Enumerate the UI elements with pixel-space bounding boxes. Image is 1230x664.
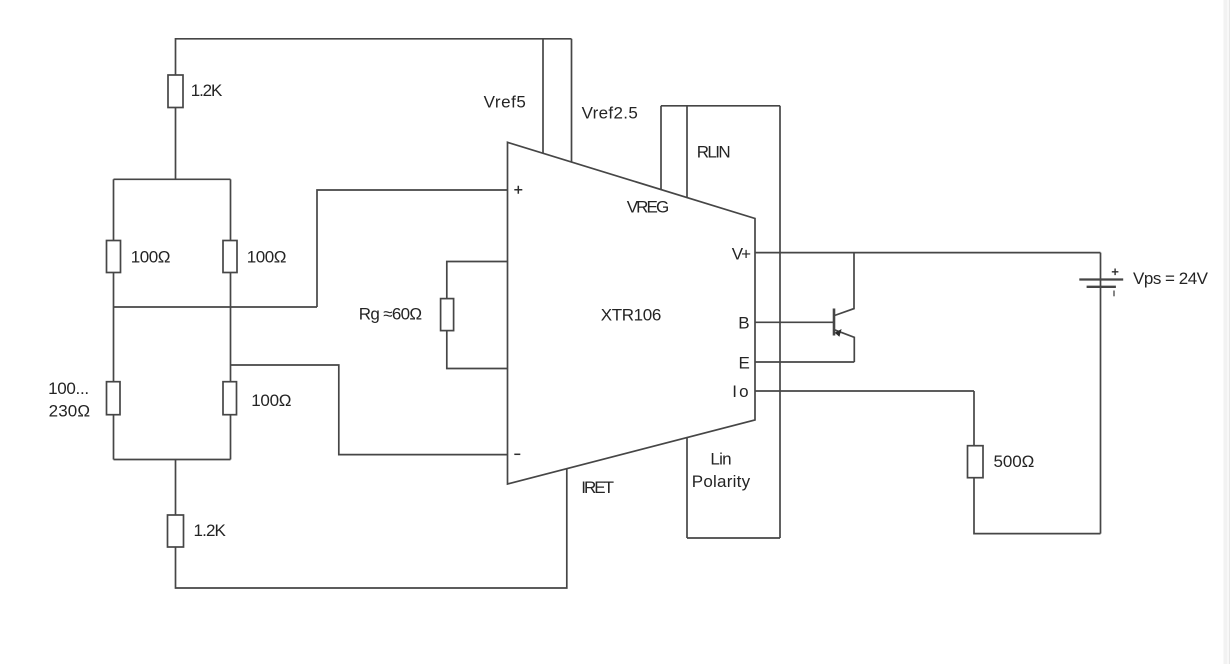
- svg-text:Vps = 24V: Vps = 24V: [1133, 269, 1209, 288]
- wire top rail: [176, 39, 572, 75]
- resistor 100-230 lower-left: [107, 382, 121, 415]
- wire Vref5 drop: [542, 39, 544, 154]
- wire bridge top: [114, 178, 231, 180]
- wire B pin: [755, 321, 834, 323]
- svg-text:XTR106: XTR106: [601, 306, 662, 325]
- wire bridge left middle: [113, 273, 115, 382]
- resistor 500 load: [968, 446, 984, 478]
- label battery plus mark: [1112, 269, 1119, 276]
- svg-text:100...: 100...: [48, 379, 89, 398]
- wire 1.2K to bridge top: [175, 108, 177, 180]
- wire Io to load: [973, 391, 975, 446]
- battery minus tick: [1113, 291, 1115, 297]
- wire Rg top: [447, 262, 508, 299]
- label minus input mark: [514, 453, 520, 455]
- battery Vps short plate: [1087, 286, 1116, 288]
- svg-text:230Ω: 230Ω: [49, 401, 91, 420]
- svg-text:IRET: IRET: [581, 478, 614, 497]
- svg-text:Io: Io: [732, 382, 748, 401]
- wire to plus input: [317, 190, 508, 307]
- label plus input mark: [514, 186, 522, 194]
- svg-text:Vref2.5: Vref2.5: [582, 103, 638, 122]
- wire supply right: [1100, 253, 1102, 534]
- svg-text:100Ω: 100Ω: [247, 248, 287, 267]
- svg-text:Rg ≈60Ω: Rg ≈60Ω: [359, 305, 422, 324]
- wire RLIN box bottom: [687, 537, 780, 539]
- wire bridge left upper: [113, 179, 115, 240]
- transistor Q1 base bar: [833, 309, 836, 336]
- svg-text:1.2K: 1.2K: [194, 521, 227, 540]
- wire load bottom: [974, 478, 1101, 534]
- op-amp U1 XTR106 body: [508, 142, 756, 484]
- wire Io pin: [755, 390, 974, 392]
- wire bridge right upper: [230, 179, 232, 240]
- svg-text:Vref5: Vref5: [484, 92, 526, 111]
- battery Vps long plate: [1079, 278, 1123, 280]
- wire RLIN left upper: [686, 106, 688, 198]
- transistor Q1 emitter arrow: [835, 329, 842, 337]
- wire Rg bottom: [447, 331, 508, 369]
- resistor 100 upper-left: [107, 241, 121, 273]
- wire RLIN left lower: [686, 438, 688, 538]
- wire VREG pin: [660, 106, 662, 190]
- wire bridge middle node: [114, 306, 318, 308]
- wire IRET return: [176, 469, 567, 588]
- resistor 1.2K top: [168, 75, 183, 108]
- svg-text:B: B: [738, 313, 749, 332]
- svg-text:RLIN: RLIN: [697, 143, 731, 162]
- wire to minus input: [231, 365, 508, 455]
- svg-text:100Ω: 100Ω: [251, 391, 291, 410]
- wire bridge bottom: [114, 459, 231, 461]
- svg-text:V+: V+: [732, 244, 751, 263]
- svg-text:VREG: VREG: [627, 197, 670, 216]
- transistor Q1 emitter: [835, 330, 855, 362]
- wire bridge left lower: [113, 415, 115, 460]
- svg-text:Lin: Lin: [710, 450, 731, 469]
- wire bridge right middle: [230, 273, 232, 382]
- svg-text:100Ω: 100Ω: [131, 248, 171, 267]
- wire Vref2.5 drop: [571, 39, 573, 162]
- transistor Q1 collector: [835, 253, 855, 316]
- resistor 100 lower-right: [223, 382, 237, 415]
- resistor 1.2K bottom: [168, 515, 184, 547]
- resistor 100 upper-right: [223, 241, 237, 273]
- svg-text:1.2K: 1.2K: [191, 81, 223, 100]
- wire bridge right lower: [230, 415, 232, 460]
- svg-text:E: E: [739, 354, 750, 373]
- resistor Rg: [441, 299, 454, 331]
- wire RLIN right: [779, 106, 781, 538]
- wire V+ pin: [755, 252, 1101, 254]
- wire RLIN box top: [661, 105, 780, 107]
- wire E pin: [755, 361, 854, 363]
- svg-text:Polarity: Polarity: [692, 472, 751, 491]
- wire bridge bottom to 1.2K: [175, 460, 177, 516]
- svg-text:500Ω: 500Ω: [994, 452, 1035, 471]
